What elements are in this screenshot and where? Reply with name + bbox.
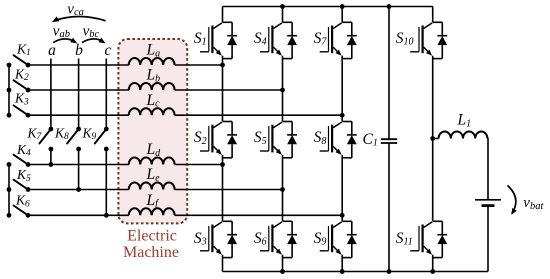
svg-text:S1: S1: [194, 30, 207, 48]
svg-text:K2: K2: [14, 66, 29, 83]
junction Lb-leg2: [280, 88, 285, 93]
junction c-K6: [104, 213, 109, 218]
IGBT S7: [320, 22, 357, 58]
IGBT S2: [200, 122, 237, 158]
wire Lf-leg3: [175, 214, 343, 216]
svg-text:S2: S2: [194, 129, 207, 147]
svg-text:b: b: [75, 42, 83, 59]
inductor La: [129, 58, 175, 65]
battery vbat: [475, 200, 501, 206]
switch K7: [39, 127, 53, 152]
svg-text:K1: K1: [16, 42, 31, 59]
svg-text:S4: S4: [254, 30, 267, 48]
wire K3-Lc: [28, 114, 129, 116]
switch K6: [7, 206, 31, 218]
svg-text:vbat: vbat: [523, 195, 544, 212]
bus K1-K3: [8, 65, 10, 115]
inductor Lf: [129, 208, 175, 215]
IGBT S5: [260, 122, 297, 158]
arrow v_bat: [508, 186, 517, 215]
junction leg4-L1: [430, 136, 435, 141]
wire Le-leg2: [175, 189, 283, 191]
svg-text:vbc: vbc: [83, 24, 100, 41]
wire leg3 rail-S_top: [341, 7, 343, 23]
svg-text:S7: S7: [314, 30, 328, 48]
wire leg1 low-rail: [222, 255, 224, 272]
wire leg1 upper-mid: [222, 56, 224, 122]
IGBT S8: [320, 122, 357, 158]
wire leg4 S10-S11: [432, 56, 434, 222]
svg-text:L1: L1: [457, 112, 472, 130]
wire K4-Ld: [28, 164, 129, 166]
bottom rail: [223, 271, 489, 273]
svg-text:K8: K8: [54, 126, 69, 143]
svg-text:S11: S11: [396, 230, 413, 248]
IGBT S9: [320, 221, 357, 257]
wire leg2 mid-low: [282, 155, 284, 221]
IGBT S10: [410, 22, 447, 58]
switch K2: [7, 80, 31, 92]
wire leg4 S11-rail: [432, 255, 434, 272]
wire phase c lower: [105, 149, 107, 215]
svg-text:S8: S8: [314, 129, 327, 147]
wire K2-Lb: [28, 89, 129, 91]
arrow v_bc: [82, 38, 106, 44]
junction bottom C1: [387, 269, 392, 274]
switch K4: [7, 155, 31, 167]
wire battery-rail: [487, 207, 489, 272]
svg-text:a: a: [48, 42, 56, 59]
svg-text:S3: S3: [194, 230, 207, 248]
svg-text:K3: K3: [14, 91, 29, 108]
wire La-leg1: [175, 64, 223, 66]
wire Ld-leg1: [175, 164, 223, 166]
arrow v_ca: [52, 16, 106, 22]
junction top leg2: [280, 4, 285, 9]
wire K1-La: [28, 64, 129, 66]
switch K1: [7, 55, 31, 67]
svg-text:S6: S6: [254, 230, 267, 248]
junction top leg3: [340, 4, 345, 9]
wire L1-battery: [486, 139, 489, 200]
wire leg3 upper-mid: [341, 56, 343, 122]
wire leg4 rail-S10: [432, 7, 434, 23]
inductor Lc: [129, 108, 175, 115]
junction La-leg1: [220, 63, 225, 68]
wire leg2 rail-S_top: [282, 7, 284, 23]
switch K5: [7, 180, 31, 192]
junction Ld-leg1: [220, 162, 225, 167]
wire leg2 low-rail: [282, 255, 284, 272]
inductor Le: [129, 182, 175, 189]
inductor Lb: [129, 83, 175, 90]
wire phase a upper: [50, 59, 52, 130]
wire C1 top: [388, 7, 390, 140]
junction Lc-leg3: [340, 113, 345, 118]
IGBT S4: [260, 22, 297, 58]
wire K5-Le: [28, 189, 129, 191]
wire leg3 low-rail: [341, 255, 343, 272]
svg-text:vab: vab: [53, 24, 70, 41]
arrow v_ab: [53, 38, 77, 44]
inductor Ld: [129, 157, 175, 164]
IGBT S11: [410, 221, 447, 257]
electric machine dashed box: [118, 39, 187, 223]
wire phase c upper: [105, 59, 107, 130]
wire Lb-leg2: [175, 89, 283, 91]
junction b-K5: [76, 187, 81, 192]
wire leg1 mid-low: [222, 155, 224, 221]
wire leg3 mid-low: [341, 155, 343, 221]
junction bottom leg3: [340, 269, 345, 274]
svg-text:K9: K9: [82, 126, 97, 143]
svg-text:ElectricMachine: ElectricMachine: [123, 227, 179, 261]
inductor L1: [439, 131, 488, 138]
svg-text:S9: S9: [314, 230, 327, 248]
wire phase b upper: [78, 59, 80, 130]
svg-text:K7: K7: [27, 126, 43, 143]
svg-text:K6: K6: [15, 193, 30, 210]
switch K3: [7, 105, 31, 117]
wire K6-Lf: [28, 214, 129, 216]
wire phase b lower: [78, 149, 80, 190]
switch K9: [95, 127, 109, 152]
IGBT S1: [200, 22, 237, 58]
junction Lf-leg3: [340, 213, 345, 218]
wire leg1 rail-S_top: [222, 7, 224, 23]
wire Lc-leg3: [175, 114, 343, 116]
junction a-K4: [49, 162, 54, 167]
IGBT S3: [200, 221, 237, 257]
svg-text:C1: C1: [363, 131, 378, 149]
junction bottom leg2: [280, 269, 285, 274]
junction Le-leg2: [280, 187, 285, 192]
bus K4-K6: [8, 165, 10, 216]
top rail: [223, 6, 433, 8]
IGBT S6: [260, 221, 297, 257]
wire leg2 upper-mid: [282, 56, 284, 122]
junction bottom leg4: [430, 269, 435, 274]
svg-text:S10: S10: [396, 30, 414, 48]
switch K8: [67, 127, 81, 152]
svg-text:c: c: [105, 42, 112, 59]
wire C1 bottom: [388, 143, 390, 272]
svg-text:vca: vca: [67, 2, 84, 19]
wire leg4-L1coil: [433, 138, 439, 140]
svg-text:S5: S5: [254, 129, 267, 147]
svg-text:K5: K5: [16, 167, 31, 184]
capacitor C1: [381, 139, 397, 143]
wire phase a lower: [50, 149, 52, 165]
svg-text:K4: K4: [16, 142, 31, 159]
junction top C1: [387, 4, 392, 9]
